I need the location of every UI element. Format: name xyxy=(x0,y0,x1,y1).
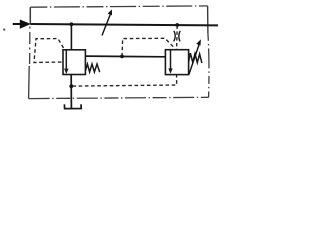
pilot line (dashed) from mid line to right valve top xyxy=(122,38,174,56)
wire: supply drop to left valve xyxy=(70,24,72,50)
main pressure line xyxy=(30,24,218,25)
spring of valve V1 xyxy=(85,64,99,72)
enclosure boundary (dash-dot assembly box) xyxy=(29,6,209,99)
restriction (orifice) in pilot line xyxy=(174,31,181,42)
valve V1 body (left, relief valve box) xyxy=(63,50,85,75)
node: right pilot tap on main line xyxy=(175,23,179,27)
node: left valve tap junction xyxy=(70,22,74,26)
valve V2 internal flow arrow (down) xyxy=(168,50,172,74)
speck (scan noise) xyxy=(3,28,5,30)
node: drain junction xyxy=(69,84,73,88)
pilot line (dashed) from main line through restriction to valve V2 xyxy=(176,26,179,50)
drain pilot line (dashed) from right valve bottom xyxy=(73,75,177,86)
wire: left valve outlet to tank xyxy=(70,75,72,109)
node: pilot tap junction on mid line xyxy=(120,55,124,59)
valve V1 internal flow arrow (down) xyxy=(64,50,68,74)
tank symbol xyxy=(64,104,81,108)
inlet flow arrow xyxy=(13,20,31,29)
valve V2 body (right, relief valve box) xyxy=(165,50,188,75)
variability slash arrow across main line xyxy=(102,10,112,36)
adjustability arrow through spring V2 xyxy=(189,39,201,74)
adjustable spring of valve V2 xyxy=(189,53,202,63)
pilot line (dashed) loop of valve V1 xyxy=(34,39,64,63)
wire: mid pressure line between valves xyxy=(85,55,165,58)
